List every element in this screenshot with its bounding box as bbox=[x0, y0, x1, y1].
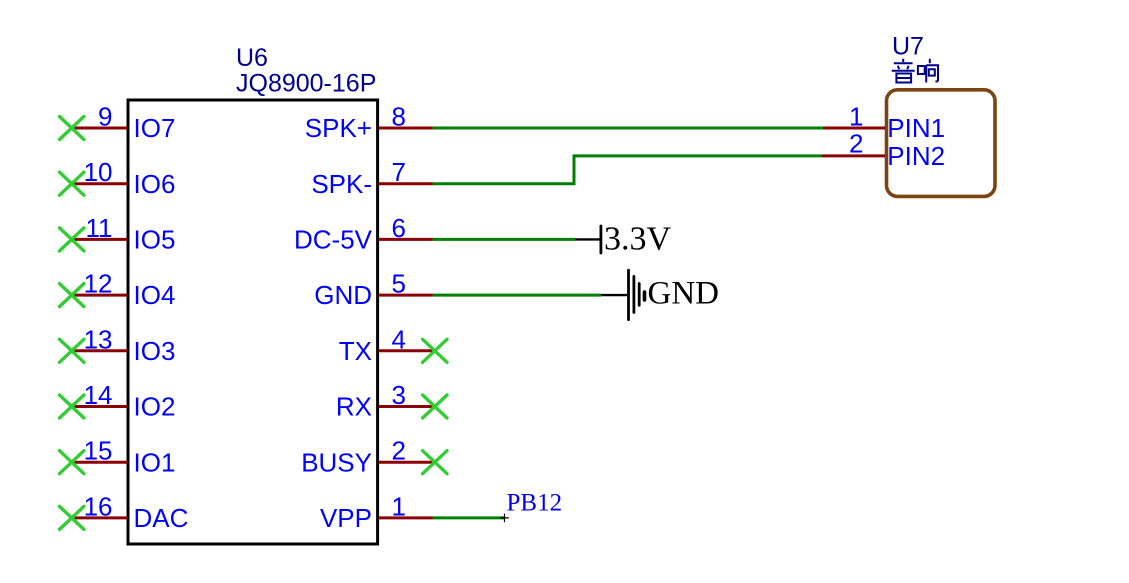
pin 13 IO3 wire bbox=[72, 349, 127, 352]
svg-text:12: 12 bbox=[84, 269, 113, 299]
pin 9 IO7 wire bbox=[72, 127, 127, 130]
power port 3.3V symbol bbox=[576, 226, 601, 253]
svg-text:7: 7 bbox=[392, 157, 406, 187]
svg-text:PIN2: PIN2 bbox=[887, 141, 945, 171]
svg-text:2: 2 bbox=[392, 436, 406, 466]
wire SPK+ to U7 PIN1 bbox=[433, 127, 824, 130]
svg-text:DC-5V: DC-5V bbox=[294, 225, 373, 255]
svg-text:SPK+: SPK+ bbox=[305, 113, 372, 143]
svg-text:JQ8900-16P: JQ8900-16P bbox=[236, 70, 376, 98]
svg-text:IO5: IO5 bbox=[134, 225, 176, 255]
no-connect X pin 3 bbox=[423, 395, 447, 418]
no-connect X pin 12 bbox=[60, 284, 84, 307]
net label anchor cross PB12 bbox=[500, 514, 509, 523]
svg-text:2: 2 bbox=[849, 129, 863, 159]
wire VPP to PB12 bbox=[433, 516, 505, 519]
svg-text:IO1: IO1 bbox=[134, 447, 176, 477]
svg-text:1: 1 bbox=[849, 102, 863, 132]
svg-text:TX: TX bbox=[339, 336, 372, 366]
svg-text:SPK-: SPK- bbox=[311, 169, 372, 199]
pin 12 IO4 wire bbox=[72, 294, 127, 297]
pin 6 DC-5V stub bbox=[379, 238, 433, 241]
svg-text:U7: U7 bbox=[892, 33, 924, 61]
pin 4 TX stub bbox=[379, 349, 434, 352]
svg-text:15: 15 bbox=[84, 436, 113, 466]
svg-text:DAC: DAC bbox=[134, 503, 189, 533]
svg-text:PIN1: PIN1 bbox=[887, 113, 945, 143]
pin 7 SPK- stub bbox=[379, 182, 433, 185]
pin 16 DAC wire bbox=[72, 516, 127, 519]
svg-text:1: 1 bbox=[392, 491, 406, 521]
ground symbol GND bbox=[601, 270, 645, 319]
svg-text:14: 14 bbox=[84, 380, 113, 410]
U7 pin 1 wire bbox=[823, 127, 885, 130]
connector U7 body bbox=[887, 90, 996, 197]
svg-text:16: 16 bbox=[84, 491, 113, 521]
wire SPK- to U7 PIN2 (jog) bbox=[433, 156, 823, 184]
svg-text:IO2: IO2 bbox=[134, 392, 176, 422]
pin 14 IO2 wire bbox=[72, 405, 127, 408]
pin 11 IO5 wire bbox=[72, 238, 127, 241]
pin 3 RX stub bbox=[379, 405, 434, 408]
no-connect X pin 16 bbox=[60, 506, 84, 529]
svg-text:IO7: IO7 bbox=[134, 113, 176, 143]
no-connect X pin 2 bbox=[423, 451, 447, 474]
svg-text:GND: GND bbox=[314, 280, 372, 310]
U7 comment label (speaker CJK) bbox=[892, 59, 938, 83]
svg-text:U6: U6 bbox=[236, 44, 268, 72]
svg-text:6: 6 bbox=[392, 213, 406, 243]
no-connect X pin 13 bbox=[60, 339, 84, 362]
svg-text:IO4: IO4 bbox=[134, 280, 176, 310]
IC U6 body bbox=[128, 100, 378, 544]
svg-text:10: 10 bbox=[84, 157, 113, 187]
svg-text:RX: RX bbox=[336, 392, 372, 422]
svg-text:IO3: IO3 bbox=[134, 336, 176, 366]
U7 pin 2 wire bbox=[822, 154, 885, 157]
svg-text:11: 11 bbox=[86, 213, 113, 243]
pin 1 VPP stub bbox=[379, 516, 433, 519]
no-connect X pin 14 bbox=[60, 395, 84, 418]
pin 10 IO6 wire bbox=[72, 182, 127, 185]
pin 8 SPK+ stub bbox=[379, 127, 433, 130]
svg-text:13: 13 bbox=[84, 324, 113, 354]
no-connect X pin 9 bbox=[60, 117, 84, 140]
svg-text:PB12: PB12 bbox=[507, 490, 563, 517]
svg-text:8: 8 bbox=[392, 102, 406, 132]
no-connect X pin 4 bbox=[423, 339, 447, 362]
svg-text:3: 3 bbox=[392, 380, 406, 410]
no-connect X pin 15 bbox=[60, 451, 84, 474]
svg-text:BUSY: BUSY bbox=[301, 447, 372, 477]
svg-text:5: 5 bbox=[392, 269, 406, 299]
wire DC-5V to 3.3V bbox=[433, 238, 576, 241]
pin 2 BUSY stub bbox=[379, 461, 434, 464]
wire GND pin to GND symbol bbox=[433, 294, 602, 297]
svg-text:9: 9 bbox=[98, 102, 112, 132]
svg-text:3.3V: 3.3V bbox=[604, 221, 672, 258]
pin 5 GND stub bbox=[379, 294, 433, 297]
svg-text:VPP: VPP bbox=[320, 503, 372, 533]
no-connect X pin 11 bbox=[60, 228, 84, 251]
svg-text:4: 4 bbox=[392, 324, 406, 354]
no-connect X pin 10 bbox=[60, 172, 84, 195]
svg-text:IO6: IO6 bbox=[134, 169, 176, 199]
svg-text:GND: GND bbox=[648, 275, 720, 311]
pin 15 IO1 wire bbox=[72, 461, 127, 464]
